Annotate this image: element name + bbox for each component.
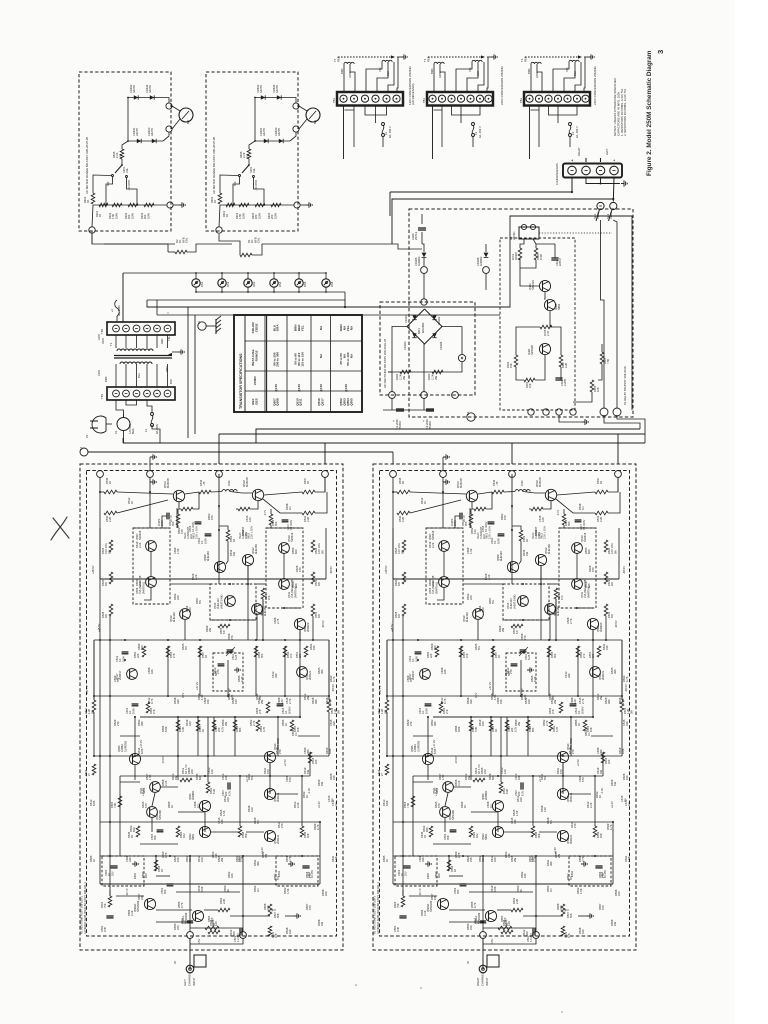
svg-text:100V: 100V [414, 656, 418, 662]
svg-text:2.5K ± 10%: 2.5K ± 10% [489, 525, 492, 539]
wire contacts to resistor bus taps [106, 177, 113, 206]
svg-text:2. RESISTORS IN OHMS, 1/2W, 5%: 2. RESISTORS IN OHMS, 1/2W, 5% [623, 88, 627, 136]
chassis ground right of box [173, 204, 179, 206]
svg-text:5%: 5% [250, 776, 254, 780]
pilot lamp DS1 [192, 279, 200, 287]
svg-text:5%: 5% [409, 678, 413, 682]
right channel R515 vertical [489, 720, 493, 731]
right channel output transistor Q502 MJ4045 [545, 489, 556, 500]
svg-text:+48.5V: +48.5V [97, 624, 101, 632]
left channel C506 vertical [212, 720, 216, 731]
relay bd bottom terminal 3 [556, 409, 562, 415]
relay bd bottom terminal 2 [543, 409, 549, 415]
svg-text:470: 470 [144, 803, 148, 808]
right channel cap C507 [520, 782, 522, 789]
right channel transistor Q510 [572, 543, 583, 554]
svg-text:F1: F1 [384, 131, 388, 135]
left channel resistor R546 1K [104, 490, 117, 494]
TB2 terminal 2 [123, 325, 130, 332]
svg-text:220: 220 [226, 797, 230, 802]
svg-text:7.5K: 7.5K [113, 802, 117, 808]
right channel darlington sub-enclosure right [559, 528, 596, 608]
diode CR305 [422, 253, 427, 258]
table row gridlines [245, 340, 363, 342]
resistor R706 [540, 325, 552, 329]
left channel resistor R560 470 [205, 926, 219, 930]
relay contact S2-2 [610, 202, 617, 209]
svg-text:ALTERED AMPLIFIER BD ASSY 208-: ALTERED AMPLIFIER BD ASSY 208-021-1 [376, 882, 380, 934]
resistor R305 vertical [600, 352, 604, 364]
svg-text:16K: 16K [599, 833, 603, 838]
svg-text:A4276: A4276 [275, 85, 279, 93]
svg-text:1W: 1W [244, 532, 248, 536]
svg-text:+17.4V: +17.4V [432, 740, 436, 748]
svg-text:1K: 1K [463, 805, 467, 808]
svg-text:27K: 27K [523, 635, 527, 640]
svg-text:1/2W: 1/2W [114, 212, 118, 219]
transformer T1 primary reference line (220V) [428, 56, 485, 58]
relay contact S2-1 [597, 202, 604, 209]
right channel inductor L501 [515, 490, 530, 492]
right channel resistor R506 [501, 930, 513, 934]
resistor R405 2.2K vertical [122, 141, 128, 149]
junction left of bridge [392, 327, 407, 359]
svg-text:27K: 27K [116, 721, 120, 726]
svg-text:33K: 33K [421, 857, 425, 862]
svg-text:100: 100 [531, 857, 535, 862]
svg-text:REF: REF [426, 56, 430, 62]
relay bd bottom terminal 1 [528, 409, 534, 415]
left channel rail y420 bottom feed [100, 883, 320, 885]
TB2 terminal 4 [144, 325, 151, 332]
switch contact 50 ohm [253, 176, 255, 178]
resistor R301 [388, 371, 424, 373]
svg-text:820: 820 [425, 827, 429, 832]
TB2 terminal 1 [113, 325, 120, 332]
svg-text:35VDC: 35VDC [398, 421, 402, 429]
svg-text:820: 820 [140, 645, 144, 650]
svg-text:1K/2W: 1K/2W [514, 252, 518, 260]
diode CR401 [264, 139, 268, 143]
right channel cap C514 [570, 703, 577, 705]
diode CR404 [277, 95, 281, 99]
svg-text:2.2K: 2.2K [222, 898, 226, 904]
svg-text:ALTERED AMPLIFIER BD ASSY 208-: ALTERED AMPLIFIER BD ASSY 208-021-1 [83, 882, 87, 934]
svg-text:220: 220 [176, 925, 180, 930]
jumper wiring coils to terminals (240V) [530, 64, 532, 92]
svg-text:39K: 39K [320, 669, 324, 674]
left channel transistor Q522 middle [147, 807, 158, 818]
svg-text:4.7K: 4.7K [150, 698, 154, 704]
left channel resistor R503 vertical [118, 796, 122, 807]
svg-text:GRN: GRN [438, 72, 442, 78]
right channel ground stub near pot [578, 915, 587, 917]
left channel resistor R509 below Q502 [269, 514, 273, 525]
svg-text:DS3: DS3 [252, 281, 256, 287]
svg-text:2.2K: 2.2K [194, 574, 198, 580]
svg-text:NA: NA [349, 325, 353, 330]
right channel rail y232 [387, 695, 622, 697]
svg-text:S29416: S29416 [138, 530, 142, 540]
left channel rail y176 [94, 639, 329, 641]
svg-text:100: 100 [617, 891, 621, 896]
svg-text:2W: 2W [224, 722, 228, 726]
left channel resistor R552 vertical [256, 720, 260, 731]
right channel transistor Q505 [422, 753, 433, 764]
svg-text:27K: 27K [216, 669, 220, 674]
svg-text:470: 470 [601, 905, 605, 910]
right channel transistor Q521 middle [443, 782, 454, 793]
svg-text:470: 470 [437, 803, 441, 808]
wire lamp feed from TB2 area [122, 273, 124, 322]
svg-text:REAR: REAR [610, 212, 613, 219]
svg-text:0.1: 0.1 [627, 802, 631, 806]
left channel cap C507 [227, 782, 229, 789]
svg-text:1K: 1K [306, 481, 310, 484]
svg-text:2W: 2W [402, 376, 406, 380]
svg-text:6.8K: 6.8K [164, 726, 168, 732]
svg-text:39K: 39K [244, 833, 248, 838]
right channel rail y312 [413, 775, 603, 777]
svg-text:LEFT: LEFT [605, 148, 609, 155]
left channel driver wires [218, 506, 220, 530]
svg-text:-1.4V: -1.4V [600, 788, 604, 794]
left channel resistor R546b [92, 764, 96, 775]
svg-text:120: 120 [214, 921, 218, 926]
svg-text:1K: 1K [599, 481, 603, 484]
svg-text:S861: S861 [484, 833, 488, 840]
left channel transistor Q505 [129, 753, 140, 764]
svg-text:T1: T1 [109, 342, 113, 346]
svg-text:100: 100 [238, 857, 242, 862]
svg-text:S862: S862 [557, 303, 561, 310]
svg-text:39K: 39K [256, 861, 260, 866]
svg-text:10K: 10K [589, 727, 593, 732]
svg-text:4.7K: 4.7K [625, 676, 629, 682]
left channel resistor R502 [218, 908, 230, 912]
svg-text:39K: 39K [153, 835, 157, 840]
svg-text:4.7K: 4.7K [609, 824, 613, 830]
svg-text:-0.7V: -0.7V [556, 510, 560, 516]
svg-text:(HEATSINK): (HEATSINK) [512, 595, 516, 609]
left channel resistor R533 vertical [166, 646, 170, 657]
right channel thermal bias sub-enclosure [503, 584, 549, 620]
svg-text:120: 120 [543, 807, 547, 812]
right channel internal vertical bus wires [386, 640, 388, 700]
svg-text:470: 470 [560, 595, 564, 600]
right channel E503 label and ground [425, 863, 428, 865]
svg-text:33K: 33K [559, 905, 563, 910]
diode CR403 [279, 139, 283, 143]
svg-text:5%: 5% [543, 776, 547, 780]
wire bus meter box1 to lamp row [91, 231, 93, 244]
long horizontal wire y434 [219, 433, 645, 435]
vertical feeds into right amp box [392, 452, 394, 464]
svg-text:240V CONVERSION WIRING: 240V CONVERSION WIRING [593, 66, 597, 105]
resistor R2 NFB CAL [104, 243, 175, 245]
svg-text:3.3K: 3.3K [474, 726, 478, 732]
left channel resistor R542 vertical [283, 646, 287, 657]
left channel transistor Q517 [127, 669, 138, 680]
svg-text:1.5K: 1.5K [148, 774, 152, 780]
svg-text:75K: 75K [396, 903, 400, 908]
svg-text:≧130: ≧130 [297, 384, 301, 392]
right channel transistor Q513 bias [518, 596, 529, 607]
svg-text:2W: 2W [629, 710, 633, 714]
svg-text:1K: 1K [453, 869, 457, 872]
right channel junction dots [392, 491, 394, 493]
svg-text:1.5K: 1.5K [627, 856, 631, 862]
svg-text:220V CONVERSION WIRING: 220V CONVERSION WIRING [500, 66, 504, 105]
resistor R401 1K [226, 203, 235, 207]
svg-text:BRN: BRN [104, 376, 108, 382]
svg-text:MJE340: MJE340 [499, 551, 503, 561]
svg-text:5%: 5% [491, 600, 495, 604]
vertical wire pair left of table A [187, 307, 189, 438]
svg-text:-16.7V: -16.7V [418, 888, 422, 896]
left channel transistor Q510 [279, 543, 290, 554]
left channel heatsink assy outer dashed enclosure [80, 464, 343, 950]
svg-text:6.8K: 6.8K [621, 748, 625, 754]
svg-text:27K: 27K [230, 635, 234, 640]
svg-text:25V: 25V [403, 871, 407, 876]
TB1 terminal 2 [123, 390, 130, 397]
svg-text:5%: 5% [256, 820, 260, 824]
left channel top stage wires [99, 477, 101, 492]
svg-text:2.5K ± 10%: 2.5K ± 10% [544, 525, 547, 539]
svg-text:120: 120 [280, 699, 284, 704]
transformer ground arrow [172, 351, 178, 353]
left channel resistor R508 [154, 860, 158, 871]
right channel resistor R536 [554, 588, 558, 599]
svg-text:820: 820 [491, 775, 495, 780]
right channel darlington left wires [443, 551, 445, 576]
svg-text:1/2W: 1/2W [273, 212, 277, 219]
left channel bottom rails [100, 855, 320, 857]
svg-text:1K: 1K [130, 501, 134, 504]
svg-text:1W: 1W [232, 552, 236, 556]
right channel resistor R546 1K [397, 490, 410, 494]
svg-text:1.5K: 1.5K [493, 694, 497, 700]
junction right of bridge [442, 326, 462, 328]
svg-text:2.7K: 2.7K [276, 618, 280, 624]
left channel resistor R541 2.2K [302, 511, 315, 515]
left channel transistor Q501A [192, 910, 203, 921]
svg-text:100: 100 [234, 699, 238, 704]
svg-text:10K: 10K [294, 583, 298, 588]
svg-text:RED: RED [160, 338, 164, 344]
right channel resistor R542 vertical [576, 646, 580, 657]
svg-text:15K: 15K [509, 363, 513, 368]
svg-text:10K: 10K [150, 669, 154, 674]
svg-text:16K: 16K [306, 833, 310, 838]
svg-text:1K2: 1K2 [182, 833, 186, 838]
svg-text:F1: F1 [571, 131, 575, 135]
lamp DS1 leads [195, 273, 197, 279]
svg-text:-47.2V: -47.2V [520, 688, 524, 696]
terminal strip TB1 [107, 387, 175, 400]
lamp DS5 leads [298, 273, 300, 279]
svg-text:2.2K: 2.2K [589, 802, 593, 808]
left channel thermal bias sub-enclosure [210, 584, 256, 620]
svg-text:CR302: CR302 [437, 316, 441, 325]
right channel resistor R518 [601, 752, 605, 763]
svg-text:-13.6V: -13.6V [454, 756, 458, 764]
right channel transistor Q508 [439, 577, 450, 588]
svg-text:0.1: 0.1 [623, 798, 627, 802]
svg-text:REF: REF [335, 97, 339, 103]
right channel transistor Q509 driver [507, 561, 518, 572]
right channel amplifier bd inner dashed enclosure [380, 471, 630, 937]
left channel resistor R517 vertical left edge [92, 700, 96, 712]
terminal at right end of bus [294, 202, 300, 208]
svg-text:27K: 27K [509, 669, 513, 674]
svg-text:2000V: 2000V [580, 706, 584, 714]
svg-text:2.2K: 2.2K [423, 910, 427, 916]
meter terminals on box edge [293, 103, 299, 109]
right channel resistor R541 2.2K [595, 511, 608, 515]
right channel resistor R509 below Q502 [562, 514, 566, 525]
svg-text:2.2K: 2.2K [430, 374, 434, 380]
svg-text:0.1: 0.1 [489, 804, 493, 808]
svg-text:0.7V: 0.7V [181, 692, 185, 698]
svg-text:27K: 27K [445, 709, 449, 714]
svg-text:6.8K: 6.8K [433, 748, 437, 754]
svg-text:5%: 5% [198, 600, 202, 604]
svg-text:820: 820 [144, 873, 148, 878]
wire left speaker + down to contact [612, 178, 615, 202]
terminal 5 (220V) [467, 95, 474, 102]
svg-text:BRN: BRN [430, 68, 434, 74]
svg-text:500: 500 [106, 181, 110, 186]
ground at reference line right (120V) [397, 56, 401, 58]
svg-text:220: 220 [551, 695, 555, 700]
svg-text:1K: 1K [204, 655, 208, 658]
svg-text:1W: 1W [104, 614, 108, 618]
right channel top stage wires [392, 477, 394, 492]
TB2 terminal 5 [154, 325, 161, 332]
svg-text:MJE340: MJE340 [465, 612, 469, 622]
svg-text:1.5K: 1.5K [286, 888, 290, 894]
svg-text:4.7K: 4.7K [262, 726, 266, 732]
svg-text:2W: 2W [220, 858, 224, 862]
svg-text:VIO: VIO [378, 68, 382, 72]
svg-text:+17.4V: +17.4V [434, 788, 438, 796]
primary winding coil A (120V) [344, 62, 354, 64]
wire lamp bus right end down [147, 292, 345, 300]
resistor R403 430 [128, 203, 138, 207]
wire TB2 right to rect box [175, 327, 380, 329]
svg-text:2N4920: 2N4920 [599, 622, 603, 632]
svg-text:SPS8169: SPS8169 [136, 900, 140, 912]
wire caps bus [383, 409, 434, 411]
terminal 6 (240V) [573, 95, 580, 102]
wire row1 to meter + terminal [165, 98, 169, 103]
svg-text:120: 120 [503, 769, 507, 774]
terminal 5 (240V) [564, 95, 571, 102]
svg-text:DS2: DS2 [226, 281, 230, 287]
svg-text:-46.5V: -46.5V [331, 684, 335, 692]
left channel E503 label and ground [132, 863, 135, 865]
wire to fuse (220V) [460, 106, 462, 123]
svg-text:100V: 100V [131, 708, 135, 714]
left channel ground stub near pot [285, 915, 294, 917]
svg-text:- 36: - 36 [202, 481, 206, 486]
svg-text:15K: 15K [312, 645, 316, 650]
svg-text:1/2W: 1/2W [130, 212, 134, 219]
AC rectifier board dashed enclosure [380, 302, 475, 395]
svg-text:R1 HEATSINK ASSY 208-100-1: R1 HEATSINK ASSY 208-100-1 [373, 896, 377, 934]
svg-text:≧130: ≧130 [319, 384, 323, 392]
right channel transistor Q518 [557, 830, 568, 841]
svg-text:AC METER RANGE BD ASSY 208-201: AC METER RANGE BD ASSY 208-201H-05 [212, 136, 216, 194]
svg-text:2.7K: 2.7K [621, 698, 625, 704]
svg-text:MJ4045: MJ4045 [245, 477, 249, 487]
svg-text:820: 820 [132, 827, 136, 832]
svg-text:A4276: A4276 [262, 128, 266, 136]
left channel rail y232 [94, 695, 329, 697]
svg-text:RIGHT: RIGHT [476, 977, 480, 986]
left channel transistor Q518 [264, 830, 275, 841]
svg-text:33K: 33K [266, 905, 270, 910]
svg-text:6.8K: 6.8K [493, 886, 497, 892]
svg-text:33K: 33K [274, 673, 278, 678]
left channel resistor R501 [268, 926, 272, 936]
diode CR402 [134, 95, 138, 99]
TB1 terminal 1 [113, 390, 120, 397]
right channel wires Q521/Q522 [445, 793, 448, 806]
svg-text:10K: 10K [596, 387, 600, 392]
svg-text:BRN: BRN [340, 68, 344, 74]
AC meter range board 1 dashed enclosure [79, 72, 171, 231]
terminal 1 (120V) [340, 95, 347, 102]
left channel capacitor C512 [122, 651, 129, 653]
right channel resistor R521 vertical right [604, 572, 608, 584]
svg-text:270: 270 [289, 653, 293, 658]
svg-text:1W: 1W [397, 582, 401, 586]
jumper wiring coils to terminals (120V) [343, 64, 345, 92]
svg-text:2.2K: 2.2K [138, 542, 142, 548]
svg-text:0.5V: 0.5V [490, 938, 494, 944]
right channel resistor R535 [511, 624, 523, 628]
svg-text:1W: 1W [306, 770, 310, 774]
wire breaker bottom to right bus [124, 438, 257, 443]
resistor R403 430 [255, 203, 265, 207]
TB2 terminal 3 [133, 325, 140, 332]
svg-text:E503: E503 [426, 872, 430, 879]
vertical wire pair left of table B [194, 315, 196, 434]
svg-text:220: 220 [190, 769, 194, 774]
svg-text:+17.4V: +17.4V [139, 740, 143, 748]
svg-text:(PARTIAL): (PARTIAL) [434, 582, 438, 594]
svg-text:2.2K: 2.2K [130, 910, 134, 916]
right channel transistor Q516 [590, 667, 601, 678]
svg-text:120: 120 [473, 529, 477, 534]
wire meter to terminals [172, 106, 180, 111]
left channel top edge terminals [97, 471, 104, 478]
svg-text:50K: 50K [276, 913, 280, 918]
wire lamp bus right end down to distribution wire A [344, 300, 346, 307]
transistor Q303 [539, 280, 550, 291]
svg-text:120: 120 [210, 769, 214, 774]
svg-text:VIO: VIO [565, 68, 569, 72]
svg-text:1K: 1K [577, 723, 581, 726]
left channel resistor R548 [238, 826, 242, 837]
left channel wires Q519/Q520 [184, 620, 186, 640]
stray scan speckles [355, 984, 357, 986]
left channel resistor R510 [206, 782, 210, 793]
svg-text:10K: 10K [443, 669, 447, 674]
